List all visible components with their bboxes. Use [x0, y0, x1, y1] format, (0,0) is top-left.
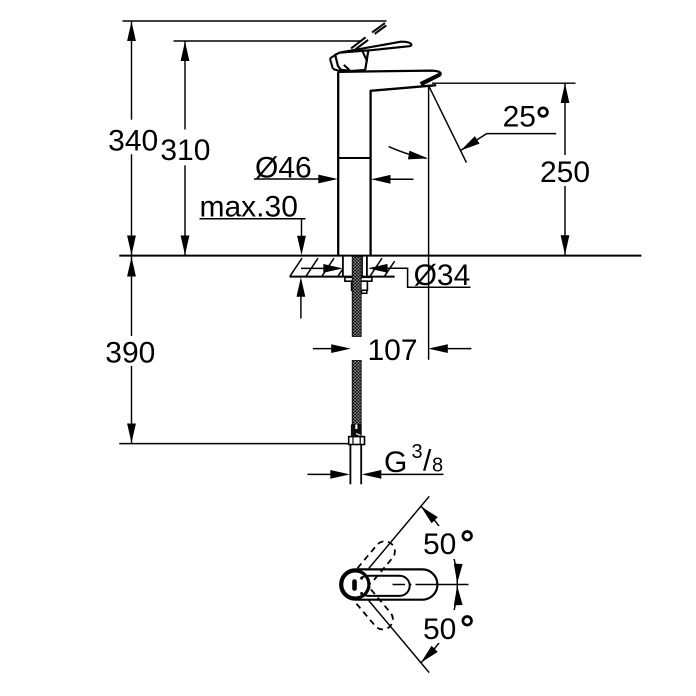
svg-text:310: 310	[160, 134, 210, 167]
svg-text:max.30: max.30	[200, 191, 298, 224]
svg-text:8: 8	[432, 455, 443, 477]
svg-text:Ø46: Ø46	[255, 152, 312, 185]
svg-text:G: G	[384, 446, 407, 479]
svg-text:107: 107	[367, 334, 417, 367]
svg-text:390: 390	[105, 337, 155, 370]
svg-text:/: /	[423, 445, 432, 478]
svg-text:50: 50	[423, 613, 456, 646]
svg-text:Ø34: Ø34	[414, 259, 471, 292]
svg-text:25: 25	[503, 101, 536, 134]
svg-text:50: 50	[423, 528, 456, 561]
svg-text:250: 250	[540, 156, 590, 189]
svg-text:340: 340	[108, 125, 158, 158]
svg-text:3: 3	[412, 441, 423, 463]
